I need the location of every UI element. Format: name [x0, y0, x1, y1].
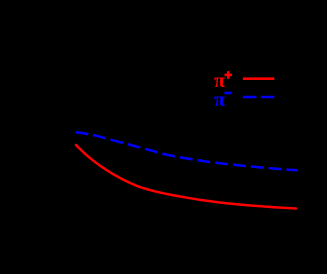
- legend pi+ superscript plus: [225, 71, 233, 79]
- legend pi+ line sample (red solid): [243, 77, 274, 80]
- legend pi- line sample (blue dashed): [243, 96, 274, 99]
- legend pi- superscript minus: [224, 92, 231, 95]
- pi- curve (blue dashed): [76, 132, 299, 170]
- pi+ curve (red solid): [76, 145, 296, 209]
- svg-text:π: π: [214, 89, 225, 111]
